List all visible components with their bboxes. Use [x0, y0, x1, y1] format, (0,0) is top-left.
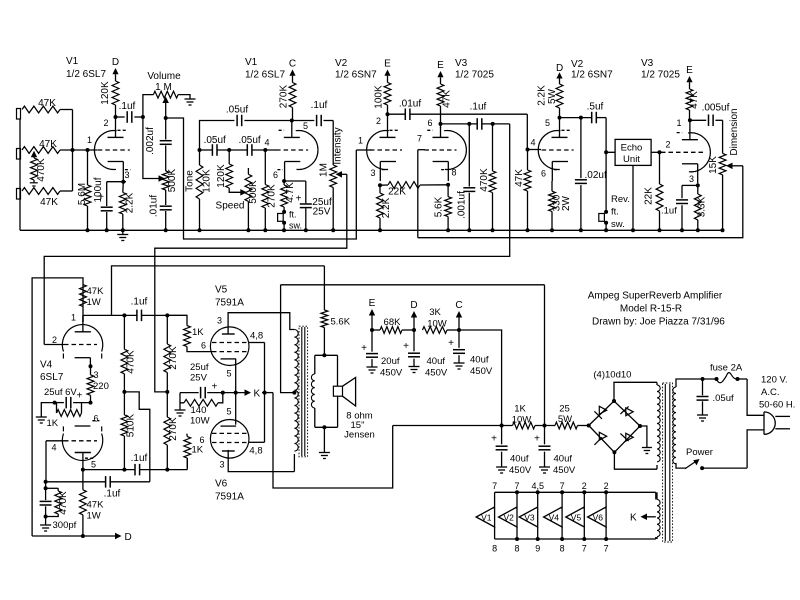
node V3b cathode: [696, 183, 700, 187]
cathode stem V6: [235, 393, 237, 425]
node V1b cathode: [282, 179, 286, 183]
capacitor C27 .05uf: [702, 379, 704, 395]
resistor R18 470K: [492, 124, 494, 171]
plate stem V2b: [559, 118, 561, 127]
svg-text:450V: 450V: [380, 368, 403, 379]
resistor R14 22K: [380, 184, 388, 186]
node 270K bottom v6: [165, 468, 169, 472]
svg-text:Drawn by: Joe Piazza 7/31/96: Drawn by: Joe Piazza 7/31/96: [592, 317, 725, 328]
svg-text:Power: Power: [686, 447, 713, 458]
svg-text:Rev.: Rev.: [611, 194, 630, 205]
row2 line: [97, 149, 99, 151]
supply arrow D2: [559, 79, 561, 85]
svg-text:5: 5: [91, 460, 96, 470]
switch to plug: [702, 467, 747, 469]
bus junction: [680, 228, 684, 232]
capacitor C18 25uf: [55, 402, 64, 404]
svg-text:V1: V1: [66, 56, 79, 67]
svg-text:Intensity: Intensity: [333, 127, 344, 164]
svg-text:47K: 47K: [87, 286, 105, 297]
node V2b plate: [558, 116, 562, 120]
capacitor C2 100uf: [106, 182, 108, 206]
screen lead V5: [249, 342, 265, 344]
tube V1a 1/2 6SL7: [94, 131, 116, 170]
node D: [412, 328, 416, 332]
bus junction: [696, 228, 700, 232]
plate line V3a: [441, 123, 478, 125]
potentiometer Volume 1M: [153, 91, 178, 98]
B+ to center tap: [281, 285, 295, 393]
svg-text:V5: V5: [571, 512, 582, 522]
capacitor C9 .1uf: [292, 120, 315, 122]
bus junction: [263, 228, 267, 232]
capacitor C20 .1uf: [105, 476, 107, 488]
bus junction: [246, 228, 250, 232]
capacitor C10 .01uf: [404, 109, 406, 121]
node fuse left: [701, 377, 705, 381]
svg-text:5W: 5W: [547, 88, 558, 104]
svg-text:140: 140: [191, 405, 207, 416]
tube V2b 1/2 6SN7: [538, 131, 560, 170]
svg-text:fuse 2A: fuse 2A: [710, 363, 743, 374]
svg-text:4: 4: [265, 138, 270, 148]
svg-text:470K: 470K: [479, 168, 490, 192]
node V2a plate: [386, 112, 390, 116]
svg-text:3: 3: [217, 316, 222, 326]
node RC left: [53, 401, 57, 405]
resistor R23 47K: [686, 89, 693, 110]
jack ground wire: [19, 119, 21, 230]
svg-text:47K: 47K: [514, 169, 525, 187]
svg-text:1/2 6SN7: 1/2 6SN7: [571, 70, 613, 81]
svg-text:.1uf: .1uf: [119, 101, 136, 112]
tube V1b 1/2 6SL7: [296, 131, 318, 170]
svg-text:K: K: [254, 389, 261, 400]
wire row2 to grid: [60, 149, 98, 151]
svg-text:.05uf: .05uf: [238, 135, 260, 146]
svg-text:120K: 120K: [202, 169, 213, 193]
footswitch: [282, 210, 286, 214]
node volume left: [141, 115, 145, 119]
resistor R30 470K grid: [46, 487, 59, 489]
svg-text:510K: 510K: [126, 413, 137, 437]
heater V6: [605, 492, 607, 507]
heater V1: [494, 492, 496, 507]
svg-text:.01uf: .01uf: [399, 99, 421, 110]
potentiometer Intensity 1M: [332, 121, 334, 166]
svg-text:8: 8: [492, 544, 497, 554]
svg-text:5: 5: [227, 369, 232, 379]
resistor R28 470K pi: [123, 315, 125, 349]
resistor R33 270K v6 grid: [166, 392, 168, 417]
resistor R37 5.6K: [323, 266, 325, 310]
svg-text:47K: 47K: [442, 90, 453, 108]
svg-text:40uf: 40uf: [427, 356, 446, 367]
svg-text:1M: 1M: [319, 163, 330, 177]
svg-text:Tone: Tone: [185, 170, 196, 192]
svg-text:1K: 1K: [47, 418, 59, 429]
plate stem V4a: [82, 307, 84, 323]
svg-text:(4)10d10: (4)10d10: [593, 370, 631, 381]
svg-text:120K: 120K: [100, 81, 111, 105]
svg-text:7: 7: [582, 544, 587, 554]
OT core: [301, 327, 303, 456]
svg-text:270K: 270K: [168, 346, 179, 370]
svg-text:4,5: 4,5: [531, 481, 544, 491]
svg-text:4: 4: [52, 443, 57, 453]
capacitor C19 .1uf: [134, 464, 136, 476]
fuse: [700, 378, 716, 380]
D feed line: [32, 535, 115, 537]
bus junction: [164, 228, 168, 232]
node V1a plate: [114, 115, 118, 119]
bridge top lead: [614, 382, 657, 401]
svg-text:+: +: [212, 382, 218, 393]
bus junction: [446, 228, 450, 232]
node 470K top pi: [122, 313, 126, 317]
node V3b plate: [688, 118, 692, 122]
svg-text:5: 5: [545, 118, 550, 128]
node 300pf bottom: [44, 515, 48, 519]
resistor R19 2.2K 5W: [556, 84, 563, 108]
node V1b plate: [290, 119, 294, 123]
grid lead V2b: [528, 149, 542, 151]
plate wire V2b: [560, 117, 592, 119]
echo unit box: [615, 139, 651, 165]
svg-text:500K: 500K: [248, 180, 259, 204]
grid lead V5: [211, 351, 213, 353]
svg-text:1K: 1K: [514, 404, 526, 415]
bus junction: [550, 228, 554, 232]
resistor R7 2.2K: [122, 182, 125, 193]
heater V5: [583, 492, 585, 507]
capacitor C15 .1uf: [682, 184, 698, 186]
resistor R8 120K: [199, 150, 201, 165]
wire PI midpoint to grid cap: [124, 392, 149, 482]
bus junction: [282, 228, 286, 232]
svg-text:+: +: [296, 194, 302, 205]
svg-text:V4: V4: [549, 512, 560, 522]
heater bottom rail: [495, 538, 656, 540]
capacitor C17 .1uf: [136, 310, 138, 322]
svg-text:.5uf: .5uf: [587, 102, 604, 113]
speaker top rail: [315, 354, 338, 356]
node B2: [500, 424, 504, 428]
svg-text:.1uf: .1uf: [661, 206, 677, 217]
svg-text:+: +: [448, 338, 454, 349]
PT primary winding: [673, 387, 676, 464]
node OT center tap: [292, 391, 296, 395]
svg-text:E: E: [369, 298, 376, 309]
svg-text:450V: 450V: [470, 366, 493, 377]
speaker ground: [323, 427, 325, 452]
svg-text:10W: 10W: [427, 318, 447, 329]
svg-text:C: C: [289, 59, 296, 70]
resistor R29 510K: [123, 392, 125, 415]
svg-text:D: D: [410, 300, 417, 311]
svg-text:1W: 1W: [87, 297, 101, 308]
svg-text:8: 8: [452, 168, 457, 178]
svg-text:A.C.: A.C.: [761, 387, 779, 398]
capacitor C16 .005uf: [690, 119, 706, 121]
speaker bottom rail: [315, 426, 338, 428]
heater V2: [516, 492, 518, 507]
resistor R17 5.6K: [447, 185, 449, 197]
svg-text:3: 3: [125, 170, 130, 180]
svg-text:7: 7: [560, 481, 565, 491]
svg-text:V6: V6: [215, 479, 228, 490]
svg-text:100uf: 100uf: [93, 177, 104, 202]
ground bus: [20, 229, 723, 231]
node V4b grid net: [44, 480, 48, 484]
svg-text:5.6K: 5.6K: [331, 317, 351, 328]
svg-text:40uf: 40uf: [554, 454, 573, 465]
heater V3: [537, 492, 539, 507]
node B1: [543, 424, 547, 428]
svg-text:V4: V4: [40, 360, 53, 371]
svg-text:.05uf: .05uf: [226, 105, 248, 116]
node PI midpoint: [122, 390, 126, 394]
svg-text:V2: V2: [504, 512, 515, 522]
svg-text:.05uf: .05uf: [204, 135, 226, 146]
supply E arrow: [387, 76, 389, 83]
bus junction: [467, 228, 471, 232]
svg-text:470K: 470K: [36, 158, 47, 182]
heater top rail: [495, 491, 656, 493]
svg-text:.1uf: .1uf: [131, 297, 148, 308]
input jack J3: [17, 189, 21, 200]
cathode wire V1a: [107, 181, 126, 183]
node 470K top: [491, 122, 495, 126]
speaker: [337, 355, 339, 386]
svg-text:5: 5: [303, 121, 308, 131]
node bridge left: [587, 424, 591, 428]
plate line V4b: [83, 469, 135, 471]
grid cap line V4b: [46, 481, 106, 483]
svg-text:2: 2: [666, 140, 671, 150]
resistor R5 5.6M: [87, 150, 89, 185]
resistor R10 270K grid leak: [264, 150, 266, 185]
svg-text:5.6M: 5.6M: [77, 183, 88, 205]
node V3a plate: [439, 122, 443, 126]
svg-text:470K: 470K: [126, 350, 137, 374]
capacitor C8 25uf: [284, 180, 306, 182]
svg-text:120 V.: 120 V.: [761, 375, 788, 386]
filter line: [393, 425, 513, 427]
bus junction: [331, 228, 335, 232]
svg-text:470K: 470K: [58, 491, 69, 515]
svg-text:V3: V3: [524, 512, 535, 522]
capacitor C25 40uf: [501, 426, 503, 445]
svg-text:20uf: 20uf: [381, 356, 400, 367]
node cathode V5: [221, 391, 225, 395]
wire joining jacks: [72, 110, 74, 192]
svg-text:2: 2: [104, 118, 109, 128]
svg-text:450V: 450V: [425, 368, 448, 379]
svg-text:47K: 47K: [40, 197, 58, 208]
svg-text:3: 3: [689, 174, 694, 184]
diode D2: [626, 408, 633, 416]
svg-text:3: 3: [94, 370, 99, 380]
svg-text:.1uf: .1uf: [131, 453, 148, 464]
wire plate to V2b grid: [388, 113, 406, 115]
node 120K2 top: [227, 148, 231, 152]
svg-text:5W: 5W: [558, 414, 572, 425]
capacitor C11 .1uf: [476, 118, 478, 130]
svg-text:7: 7: [492, 481, 497, 491]
svg-text:2: 2: [52, 335, 57, 345]
cathode stem V5: [235, 359, 237, 393]
svg-text:2: 2: [604, 481, 609, 491]
node 510K bottom: [122, 468, 126, 472]
node 300pf top: [44, 486, 48, 490]
svg-text:22K: 22K: [644, 187, 655, 205]
resistor R3 47K: [22, 188, 60, 195]
svg-text:47K: 47K: [38, 98, 56, 109]
svg-text:10W: 10W: [190, 416, 210, 427]
svg-text:2.2K: 2.2K: [537, 85, 548, 106]
svg-text:E: E: [437, 60, 444, 71]
node V2b cathode: [551, 181, 553, 191]
grid lead V4a: [44, 344, 64, 346]
svg-text:D: D: [125, 532, 132, 543]
svg-text:1K: 1K: [192, 445, 204, 456]
svg-text:K: K: [630, 513, 637, 524]
volume right to ground: [178, 95, 190, 99]
svg-text:270K: 270K: [168, 417, 179, 441]
svg-text:40uf: 40uf: [510, 454, 529, 465]
svg-text:.01uf: .01uf: [149, 195, 160, 217]
svg-text:2W: 2W: [561, 195, 572, 211]
supply C arrow: [292, 76, 294, 83]
svg-text:1: 1: [358, 136, 363, 146]
resistor R38 68K: [372, 329, 380, 331]
heater V4: [561, 492, 563, 507]
node echo in: [604, 150, 608, 154]
capacitor C23 40uf: [413, 330, 415, 351]
rev footswitch: [605, 152, 607, 212]
bus junction: [198, 228, 202, 232]
node 270K midpoint: [165, 390, 169, 394]
svg-text:25V: 25V: [190, 373, 208, 384]
node bridge right: [638, 424, 642, 428]
wire row2 caps: [200, 149, 213, 151]
svg-text:+: +: [361, 343, 367, 354]
wire volume wiper down: [166, 118, 357, 239]
svg-text:V1: V1: [481, 512, 492, 522]
svg-text:2: 2: [376, 116, 381, 126]
echo ground wire: [632, 165, 634, 230]
supply E arrow 3: [689, 82, 691, 89]
svg-text:ft.: ft.: [611, 207, 619, 218]
resistor R11 270K plate: [289, 83, 296, 108]
svg-text:6: 6: [273, 170, 278, 180]
resistor R26 220: [90, 366, 92, 375]
plate stem V6: [228, 450, 294, 472]
node .02uf top: [579, 116, 583, 120]
svg-text:8: 8: [514, 544, 519, 554]
ground V4 cathode: [41, 403, 54, 417]
svg-text:+: +: [491, 434, 497, 445]
tube V4a 6SL7: [62, 325, 102, 352]
resistor R13 100K: [384, 83, 391, 106]
resistor R27 1K: [56, 403, 58, 413]
input jack J2: [17, 149, 21, 160]
tube V5 7591A: [210, 327, 249, 366]
dimension wiper: [726, 163, 733, 170]
plate line V4a: [83, 314, 137, 316]
resistor R9 120K: [228, 150, 230, 164]
bus junction: [579, 228, 583, 232]
svg-text:68K: 68K: [384, 317, 402, 328]
resistor R6 120K: [112, 81, 119, 105]
svg-text:.002uf: .002uf: [145, 127, 156, 155]
potentiometer Speed 500K: [247, 168, 249, 174]
screen lead V6: [249, 441, 265, 443]
svg-text:E: E: [384, 59, 391, 70]
wire 5.6K feed: [112, 266, 325, 316]
grid lead V2a: [356, 149, 371, 151]
svg-text:E: E: [686, 65, 693, 76]
svg-text:7: 7: [514, 481, 519, 491]
resistor R2 47K: [22, 147, 60, 154]
resistor R32 270K v5 grid: [166, 315, 168, 344]
capacitor C14 .02uf: [580, 118, 582, 179]
svg-text:100K: 100K: [374, 85, 385, 109]
bus junction: [631, 228, 635, 232]
node grid V1b: [263, 148, 267, 152]
svg-text:270K: 270K: [279, 84, 290, 108]
resistor R20 47K grid: [527, 150, 529, 171]
resistor R39 3K 10W: [423, 327, 448, 334]
tube V6 7591A: [210, 420, 249, 459]
node bridge top: [612, 399, 616, 403]
bridge edges: [589, 401, 640, 452]
svg-text:25uf 6V: 25uf 6V: [44, 387, 77, 398]
svg-text:1: 1: [87, 135, 92, 145]
AC plug: [763, 412, 765, 435]
K winding tap: [646, 516, 656, 518]
svg-text:6: 6: [94, 414, 99, 424]
bus junction: [86, 228, 90, 232]
node .001uf top: [467, 122, 471, 126]
svg-text:D: D: [112, 57, 119, 68]
svg-text:sw.: sw.: [611, 219, 625, 230]
svg-text:6: 6: [541, 169, 546, 179]
resistor R41 25 5W: [555, 422, 578, 429]
bridge right to ground: [640, 426, 647, 447]
fuse to plug: [747, 379, 764, 415]
capacitor C26 40uf: [544, 426, 546, 445]
node row2 junction: [71, 148, 75, 152]
bus ground symbol: [122, 230, 124, 234]
resistor R24 3.3K: [697, 185, 699, 194]
svg-text:V2: V2: [335, 58, 348, 69]
screen tie line: [264, 343, 266, 443]
svg-text:.05uf: .05uf: [713, 393, 734, 404]
svg-text:Jensen: Jensen: [344, 430, 375, 441]
svg-text:+: +: [77, 391, 83, 402]
svg-text:1K: 1K: [192, 327, 204, 338]
bus junction: [378, 228, 382, 232]
svg-text:3K: 3K: [429, 307, 441, 318]
PT core: [664, 384, 666, 541]
svg-text:V5: V5: [215, 285, 228, 296]
node volume wiper: [164, 116, 168, 120]
cathode K line: [180, 392, 199, 394]
svg-text:V6: V6: [593, 512, 604, 522]
node V4a cathode: [89, 364, 93, 368]
